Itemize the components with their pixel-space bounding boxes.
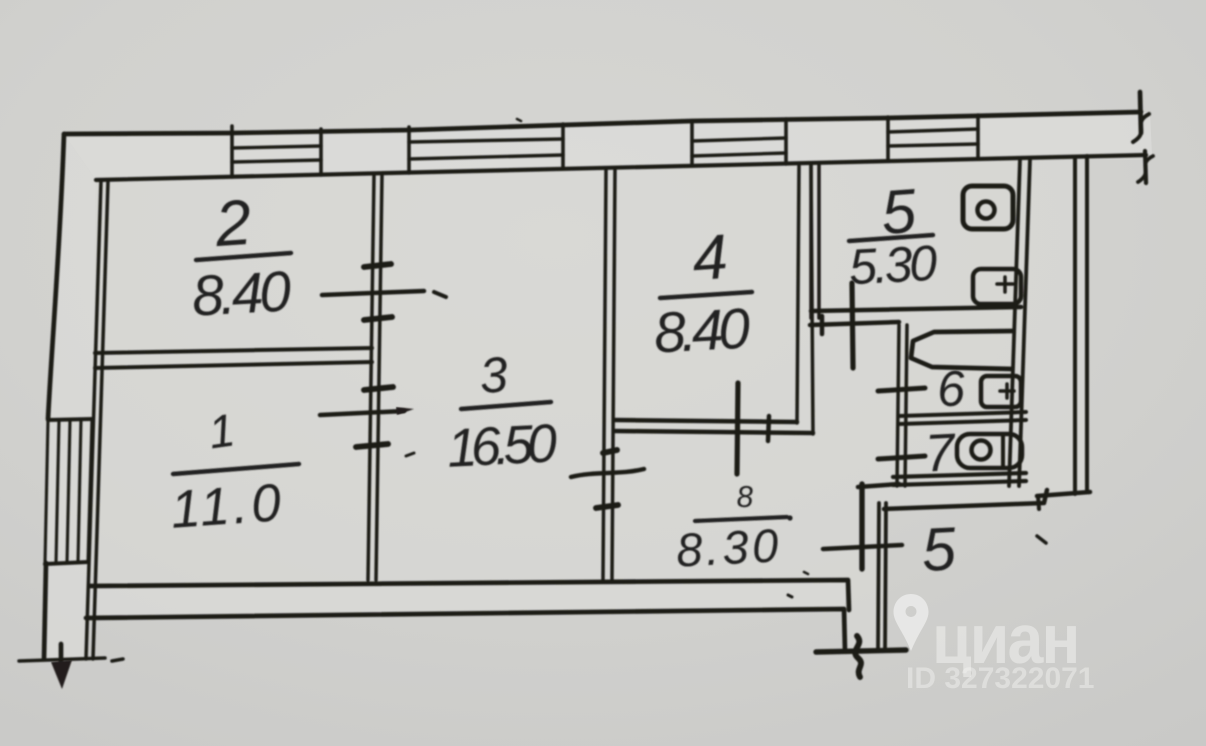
window W3 lines bbox=[692, 138, 786, 156]
stove room 5 bbox=[963, 186, 1013, 229]
wall break squiggle outer bbox=[1133, 114, 1149, 142]
partition P1 rooms 1,2 vs room 3 bbox=[368, 175, 382, 580]
door tick room 6 bbox=[878, 388, 925, 391]
room 2 fraction bar bbox=[196, 253, 291, 260]
svg-text:8.40: 8.40 bbox=[652, 297, 752, 366]
wall: lobby top line under room5 bbox=[810, 322, 899, 325]
speck near room 8 bbox=[788, 595, 792, 597]
wall: stub between room8 and corridor5 bbox=[859, 484, 864, 569]
room 8 bar end dot bbox=[787, 515, 792, 520]
room 3 fraction bar bbox=[461, 402, 551, 409]
svg-text:5.30: 5.30 bbox=[848, 235, 939, 296]
sink room 6 bbox=[981, 376, 1021, 407]
door dash room 2 bbox=[434, 292, 446, 297]
svg-text:7: 7 bbox=[924, 423, 959, 484]
wall: corridor5 left double bbox=[878, 503, 886, 651]
window W2 end bars bbox=[409, 124, 563, 173]
left wall light band bbox=[44, 134, 96, 659]
room 1 fraction bar bbox=[173, 464, 299, 474]
speck above window W2 bbox=[517, 119, 521, 121]
partition P2 room3 vs rooms 4,8 bbox=[603, 168, 615, 579]
wall: room 5 bottom bbox=[811, 307, 1021, 311]
door line corridor5 bbox=[823, 545, 902, 549]
toilet tank line bbox=[1001, 436, 1005, 466]
room 8 fraction bar bbox=[695, 517, 787, 521]
window W1 end bars bbox=[232, 126, 321, 177]
svg-text:3: 3 bbox=[478, 346, 510, 404]
wall: bottom outer bbox=[86, 609, 845, 651]
balcony tick bottom-left bbox=[19, 658, 105, 661]
wall: left outer lower bbox=[44, 563, 46, 659]
speck right of door room1 bbox=[406, 453, 414, 456]
wall: divider rooms 6,7 bbox=[899, 412, 1026, 424]
door cap room8 lower bbox=[596, 505, 618, 508]
wall: stub horizontal bbox=[858, 484, 899, 487]
svg-text:5: 5 bbox=[920, 514, 959, 584]
svg-text:2: 2 bbox=[212, 186, 254, 260]
room 5 fraction bar bbox=[849, 235, 933, 241]
window left block bottom cap bbox=[45, 562, 88, 564]
entrance break squiggle bbox=[855, 636, 861, 677]
wall: room 4 right bbox=[797, 165, 813, 434]
wall: corridor right double bbox=[1075, 156, 1087, 494]
wall: room 5 left double bbox=[811, 164, 819, 318]
wall: corridor bottom step bbox=[1038, 496, 1039, 509]
wall: left of rooms 6,7 bbox=[897, 325, 907, 486]
entrance threshold line bbox=[816, 650, 906, 652]
wall: bottom of rooms 6,7 bbox=[893, 473, 1026, 485]
door cap room2 upper bbox=[364, 264, 391, 267]
window W1 lines bbox=[232, 146, 321, 162]
svg-text:8.40: 8.40 bbox=[190, 259, 293, 328]
toilet bowl circle bbox=[972, 441, 991, 460]
door tick room 7 bbox=[878, 456, 925, 459]
door wedge room 1 bbox=[396, 407, 414, 415]
svg-text:6: 6 bbox=[936, 360, 967, 417]
window left block top cap bbox=[48, 419, 92, 420]
balcony arrow bbox=[59, 644, 64, 665]
wall: left inner double line bbox=[86, 181, 108, 659]
window W4 end bars bbox=[888, 115, 978, 161]
speck near corridor 5 bbox=[1037, 536, 1046, 543]
wall break bar top-right outer bbox=[1140, 92, 1141, 133]
wall: corridor5 top bbox=[884, 490, 1047, 509]
svg-text:11.0: 11.0 bbox=[169, 473, 283, 540]
door line room 2 bbox=[322, 291, 424, 295]
bottom wall light band bbox=[86, 580, 848, 618]
wall: right of rooms 5,6,7 bbox=[1009, 159, 1030, 486]
bathtub room 6 bbox=[911, 331, 1012, 369]
window W2 lines bbox=[409, 139, 563, 159]
wall: corridor bottom bbox=[1037, 492, 1090, 496]
door cap room1 upper bbox=[364, 387, 393, 390]
door cap room2 lower bbox=[364, 317, 392, 320]
room 4 fraction bar bbox=[660, 292, 752, 298]
wire: top outer wall bbox=[64, 112, 1141, 134]
svg-text:4: 4 bbox=[690, 222, 730, 294]
wall between rooms 1 and 2 bbox=[95, 348, 372, 368]
door cap room1 lower bbox=[356, 444, 388, 447]
top wall light band bbox=[64, 112, 1152, 180]
door tick room 5 bbox=[852, 283, 853, 368]
window left block hatch lines bbox=[45, 419, 92, 563]
wall: left outer upper bbox=[48, 134, 64, 419]
svg-text:8.30: 8.30 bbox=[675, 518, 780, 576]
door line room 8 bbox=[571, 469, 644, 477]
wall: room 4 bottom double bbox=[614, 420, 813, 433]
sink room 5 plus bbox=[997, 277, 1013, 292]
toilet room 7 bbox=[957, 434, 1022, 468]
door tick room 4 bbox=[737, 383, 738, 474]
sink room 5 bbox=[973, 269, 1021, 304]
apartment interior light fill bbox=[89, 155, 1146, 650]
window W4 lines bbox=[888, 129, 978, 146]
wire: top inner wall line bbox=[96, 155, 1146, 180]
door cap room8 upper bbox=[603, 450, 617, 453]
door line room 1 bbox=[320, 411, 404, 415]
wall break squiggle inner bbox=[1138, 156, 1153, 182]
watermark pin icon bbox=[894, 594, 929, 651]
svg-text:8: 8 bbox=[736, 481, 755, 515]
wall: bottom inner bbox=[89, 580, 849, 610]
stove circle bbox=[978, 202, 995, 219]
door small tick room 5 bbox=[820, 316, 825, 334]
svg-text:ID 327322071: ID 327322071 bbox=[906, 662, 1095, 695]
door small tick room 4 bbox=[768, 416, 769, 441]
svg-text:16.50: 16.50 bbox=[446, 413, 559, 479]
sink room 6 plus bbox=[1000, 384, 1014, 398]
balcony arrow head bbox=[51, 660, 72, 689]
window W3 end bars bbox=[692, 119, 786, 166]
balcony small dash bbox=[112, 659, 123, 661]
wall break bar top-right inner bbox=[1145, 151, 1146, 183]
